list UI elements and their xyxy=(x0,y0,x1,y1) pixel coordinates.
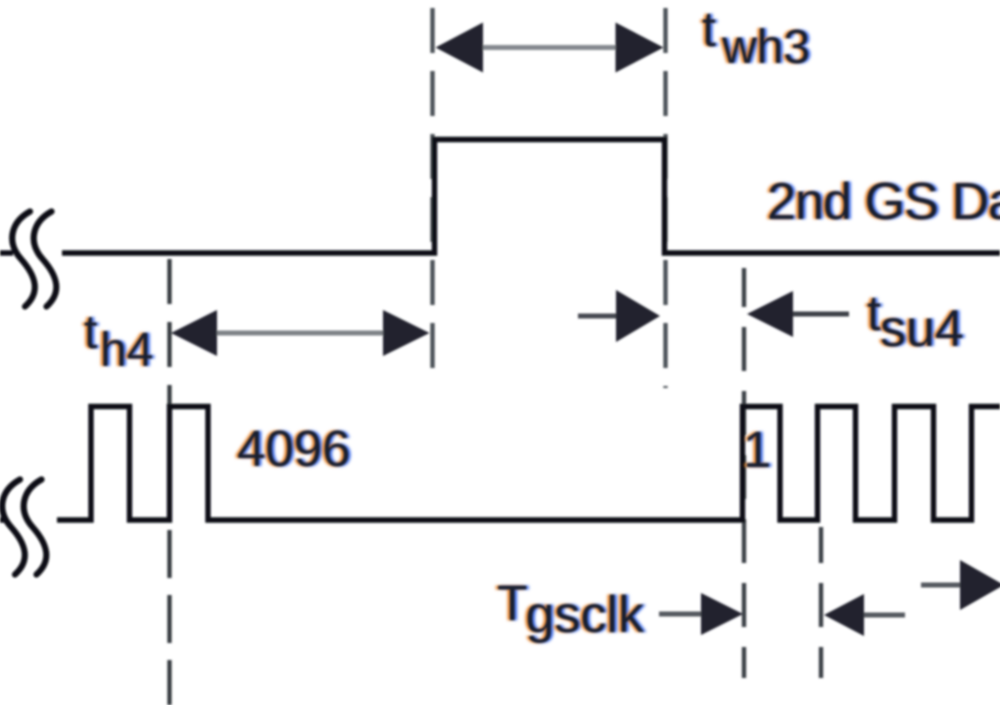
arrow t_wh3 (double-headed, between dashed lines) xyxy=(436,23,664,73)
label T_gsclk xyxy=(497,578,528,628)
dashed line at GSCLK pulse 4096 rising edge (x=169) xyxy=(167,259,171,446)
arrow t_h4 (double-headed) xyxy=(171,310,430,356)
wire: bottom waveform (GSCLK pulse train) xyxy=(57,407,1000,521)
arrow at right edge (pointing right, cut off) xyxy=(921,560,1000,610)
label t_wh3 xyxy=(702,4,716,54)
wire: top waveform left stub xyxy=(0,250,13,255)
label t_h4 xyxy=(84,309,97,357)
break symbol on top waveform (double squiggle) xyxy=(12,212,56,307)
arrow t_su4 (pointing left) xyxy=(747,291,849,337)
dashed line at GSCLK pulse 2 rising edge (x=821) xyxy=(819,527,823,678)
dashed line at GSCLK pulse 1 rising edge (x=744) xyxy=(742,268,746,678)
label 1 (GSCLK pulse number) xyxy=(743,424,771,475)
arrow pointing right at t_wh3 falling edge xyxy=(578,290,660,342)
wire: top waveform (BLANK trace) with 2nd GS pulse xyxy=(62,140,1000,254)
arrow T_gsclk left measure (pointing right) xyxy=(659,593,743,635)
break symbol on bottom waveform (double squiggle) xyxy=(2,480,46,575)
label 4096 (GSCLK pulse number) xyxy=(237,423,350,474)
dashed line left edge of t_wh3 pulse (x=433) xyxy=(430,8,434,375)
wire: bottom waveform left stub xyxy=(0,517,8,522)
arrow T_gsclk right measure (pointing left) xyxy=(824,594,905,636)
label t_su4 xyxy=(867,288,881,338)
dashed line right edge of t_wh3 pulse (x=665) xyxy=(663,8,667,388)
label 2nd GS Data xyxy=(767,176,1000,228)
